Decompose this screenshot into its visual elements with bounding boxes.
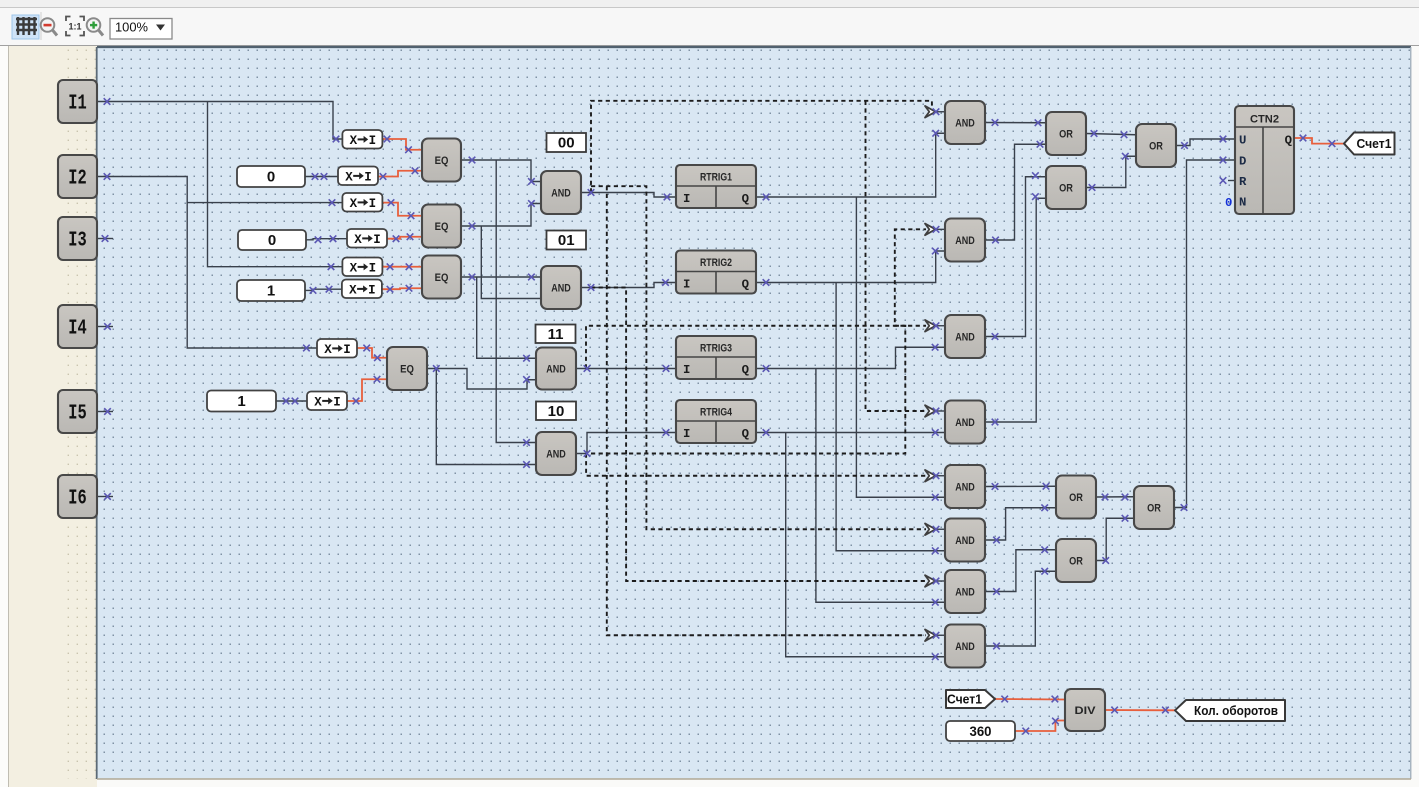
gate OR4 — [1056, 476, 1096, 519]
counter CTN2 — [1235, 106, 1294, 214]
gate AND10 — [945, 519, 985, 562]
wire red XI7 to EQ4 pin1 — [357, 348, 387, 358]
svg-text:X: X — [350, 134, 358, 148]
svg-text:I: I — [683, 363, 690, 377]
input I5 — [58, 390, 97, 433]
converter XI5 X to I — [342, 258, 382, 277]
svg-text:01: 01 — [558, 232, 575, 249]
constant 1 (second) — [207, 391, 276, 412]
svg-text:I2: I2 — [68, 168, 87, 191]
gate AND3 state11 — [536, 348, 576, 390]
wire red DIV out to Kol oborotov tag — [1105, 709, 1175, 711]
svg-text:Q: Q — [742, 192, 750, 206]
wire AND11 to OR5 pin1 — [985, 550, 1056, 592]
svg-text:X: X — [350, 197, 358, 211]
svg-text:AND: AND — [955, 482, 975, 494]
wire dashed AND1 branch to AND10 pin1 — [591, 186, 926, 529]
wire RTRIG1 Q branch to AND9 pin2 — [856, 197, 945, 497]
gate OR5 — [1056, 539, 1096, 582]
wire I2 to XI7 — [97, 177, 317, 349]
svg-text:RTRIG2: RTRIG2 — [700, 257, 732, 269]
wire const0a to XI2 — [305, 176, 338, 178]
comparator EQ2 — [422, 205, 461, 248]
svg-text:I: I — [364, 170, 372, 184]
constant 1 (first) — [237, 280, 305, 301]
toolbar 1:1 button — [66, 17, 84, 36]
output tag Schet1 — [1344, 133, 1395, 155]
gate AND1 state00 — [541, 171, 581, 214]
svg-text:I1: I1 — [68, 93, 87, 116]
wire AND2 to RTRIG2 I — [581, 283, 676, 288]
converter XI2 X to I — [338, 167, 378, 186]
svg-text:I: I — [683, 278, 690, 292]
wire red Schet1 in tag to DIV pin1 — [995, 698, 1065, 701]
wire OR6 to CTN2 D — [1174, 160, 1235, 508]
svg-text:X: X — [345, 170, 353, 184]
svg-text:I: I — [373, 233, 381, 247]
svg-text:10: 10 — [548, 403, 565, 420]
trigger RTRIG3 — [676, 336, 756, 379]
svg-text:OR: OR — [1147, 503, 1161, 515]
svg-text:I6: I6 — [68, 488, 87, 511]
wire dashed AND1 branch to AND8 pin1 — [866, 101, 927, 411]
wire AND3 to RTRIG3 I — [576, 368, 676, 370]
svg-text:0: 0 — [268, 232, 276, 249]
wire RTRIG3 Q to AND7 pin2 — [756, 347, 945, 368]
wire red XI5 to EQ3 pin1 — [382, 266, 422, 268]
input I4 — [58, 305, 97, 348]
wire RTRIG2 Q to AND6 pin2 — [756, 251, 945, 283]
divider DIV — [1065, 689, 1105, 731]
wire red XI1 to EQ1 pin1 — [382, 139, 422, 150]
gate OR6 — [1134, 486, 1174, 529]
svg-text:0: 0 — [267, 169, 275, 186]
svg-text:AND: AND — [955, 417, 975, 429]
comparator EQ1 — [422, 139, 461, 182]
svg-text:AND: AND — [955, 118, 975, 130]
comparator EQ4 — [387, 347, 427, 390]
wire AND8 to OR2 pin2 — [985, 198, 1046, 422]
svg-text:AND: AND — [955, 235, 975, 247]
wire AND12 to OR5 pin2 — [985, 571, 1056, 646]
wire dashed AND4 branch to AND9 pin1 — [586, 454, 926, 476]
wire AND5 to OR1 pin1 — [985, 122, 1046, 124]
toolbar zoom-in button — [87, 18, 103, 35]
wire AND1 to RTRIG1 I — [581, 193, 676, 198]
svg-text:EQ: EQ — [435, 221, 449, 233]
svg-text:AND: AND — [955, 332, 975, 344]
svg-text:I: I — [683, 192, 690, 206]
dashed wire arrowhead y=325.75 — [934, 325, 945, 327]
svg-text:CTN2: CTN2 — [1250, 114, 1279, 126]
gate AND2 state01 — [541, 266, 581, 309]
comment box 00 — [547, 133, 587, 152]
input I1 — [58, 80, 97, 123]
gate OR1 — [1046, 112, 1086, 155]
constant 360 — [946, 721, 1015, 741]
wire red CTN2 Q to Schet1 out tag — [1294, 138, 1344, 144]
svg-text:AND: AND — [955, 535, 975, 547]
gate AND8 — [945, 401, 985, 444]
dashed wire arrowhead y=635.25 — [934, 634, 945, 636]
dashed wire arrowhead y=581 — [934, 580, 945, 582]
svg-text:11: 11 — [548, 326, 564, 343]
wire dashed AND1 to AND5 pin1 — [591, 101, 938, 193]
svg-text:I3: I3 — [68, 230, 87, 253]
svg-text:EQ: EQ — [435, 155, 449, 167]
svg-text:X: X — [349, 283, 357, 297]
wire EQ2 branch to AND2 pin2 — [481, 226, 541, 299]
input I6 — [58, 475, 97, 518]
wire EQ4 branch to AND4 pin2 — [436, 369, 536, 465]
output tag Kol oborotov — [1175, 700, 1285, 721]
svg-text:I: I — [343, 343, 351, 357]
gate AND11 — [945, 570, 985, 613]
wire I1 branch to XI5 — [208, 102, 343, 267]
svg-text:OR: OR — [1059, 129, 1073, 141]
gate OR3 — [1136, 124, 1176, 167]
wire I6 stub — [97, 496, 113, 498]
wire AND6 to OR1 pin2 — [985, 144, 1046, 240]
svg-text:OR: OR — [1059, 183, 1073, 195]
wire EQ4 out to AND3 pin2 — [427, 369, 536, 390]
svg-text:AND: AND — [546, 364, 566, 376]
input I2 — [58, 155, 97, 198]
svg-text:I: I — [369, 261, 377, 275]
comparator EQ3 — [422, 256, 461, 299]
converter XI4 X to I — [347, 229, 387, 248]
wire EQ1 out to AND1 pin1 — [461, 160, 541, 182]
wire AND9 to OR4 pin1 — [985, 485, 1056, 487]
wire AND7 to OR2 pin1 — [985, 177, 1046, 337]
gate AND12 — [945, 625, 985, 668]
dashed wire arrowhead y=411 — [934, 410, 945, 412]
svg-text:Q: Q — [742, 278, 750, 292]
wire OR1 to OR3 pin1 — [1086, 134, 1136, 135]
constant 0 (second) — [238, 230, 306, 250]
input tag Schet1 — [946, 690, 995, 708]
svg-text:1:1: 1:1 — [68, 22, 81, 32]
wire EQ1 branch to AND4 pin1 — [496, 160, 536, 443]
wire red XI2 to EQ1 pin2 — [378, 171, 422, 177]
wire RTRIG4 Q branch to AND12 pin2 — [786, 433, 945, 657]
svg-text:100%: 100% — [115, 20, 148, 35]
gate AND9 — [945, 465, 985, 508]
wire I5 stub — [97, 411, 113, 413]
wire red XI4 to EQ2 pin2 — [387, 237, 422, 239]
wire EQ2 out to AND1 pin2 — [461, 204, 541, 227]
wire RTRIG4 Q to AND8 pin2 — [756, 432, 945, 434]
wire const1b to XI8 — [276, 400, 307, 402]
wire AND10 to OR4 pin2 — [985, 508, 1056, 540]
gate AND6 — [945, 219, 985, 262]
svg-text:OR: OR — [1069, 492, 1083, 504]
svg-text:I: I — [368, 283, 376, 297]
svg-text:360: 360 — [970, 723, 992, 739]
gate AND5 — [945, 101, 985, 144]
svg-text:Счет1: Счет1 — [947, 693, 982, 707]
wire dashed AND3 to AND7 pin1 — [586, 326, 926, 369]
converter XI1 X to I — [342, 130, 382, 149]
svg-text:EQ: EQ — [400, 364, 414, 376]
converter XI8 X to I — [307, 392, 347, 411]
svg-text:I: I — [369, 134, 377, 148]
trigger RTRIG4 — [676, 400, 756, 443]
wire red XI6 to EQ3 pin2 — [381, 287, 422, 290]
wire AND4 to RTRIG4 I — [576, 433, 676, 454]
toolbar grid button (toggled) — [12, 15, 39, 39]
wire const1a to XI6 — [305, 289, 342, 290]
svg-text:X: X — [350, 261, 358, 275]
wire EQ3 branch to AND3 pin1 — [477, 277, 536, 358]
dashed wire arrowhead y=229.35 — [934, 228, 945, 230]
wire RTRIG2 Q branch to AND10 pin2 — [836, 283, 945, 551]
svg-text:OR: OR — [1069, 556, 1083, 568]
svg-text:I5: I5 — [68, 403, 87, 426]
svg-text:00: 00 — [558, 135, 575, 152]
dashed wire arrowhead y=529.25 — [934, 528, 945, 530]
wire OR4 to OR6 pin1 — [1096, 496, 1134, 498]
toolbar zoom dropdown — [110, 19, 172, 40]
svg-text:Кол. оборотов: Кол. оборотов — [1194, 704, 1278, 718]
wire dashed AND4 to AND6 pin1 — [591, 229, 926, 453]
toolbar zoom-out button — [41, 18, 57, 35]
svg-text:I4: I4 — [68, 318, 87, 341]
svg-text:AND: AND — [955, 641, 975, 653]
svg-text:U: U — [1239, 134, 1246, 148]
dashed wire arrowhead y=475.75 — [934, 475, 945, 477]
wire dashed AND1 branch to AND12 pin1 — [607, 186, 926, 635]
comment box 01 — [547, 231, 587, 250]
svg-text:AND: AND — [551, 283, 571, 295]
converter XI6 X to I — [342, 280, 382, 299]
svg-text:1: 1 — [267, 283, 275, 300]
wire EQ3 out to AND2 pin1 — [461, 276, 541, 278]
trigger RTRIG1 — [676, 165, 756, 208]
svg-text:D: D — [1239, 155, 1246, 169]
converter XI7 X to I — [317, 339, 357, 358]
svg-text:AND: AND — [955, 587, 975, 599]
svg-text:AND: AND — [546, 449, 566, 461]
wire CTN2 R stub — [1228, 180, 1235, 182]
wire I2 branch to XI3 — [187, 202, 342, 204]
svg-text:X: X — [354, 233, 362, 247]
svg-text:N: N — [1239, 196, 1246, 210]
gate OR2 — [1046, 166, 1086, 209]
wire dashed AND2 to AND11 pin1 — [591, 288, 926, 582]
svg-text:X: X — [324, 343, 332, 357]
wire red XI8 to EQ4 pin2 — [347, 379, 387, 401]
wire RTRIG1 Q to AND5 pin2 — [756, 133, 945, 197]
svg-text:Q: Q — [742, 363, 750, 377]
input I3 — [58, 217, 97, 260]
comment box 11 — [536, 325, 576, 344]
wire I3 stub — [97, 238, 113, 240]
svg-text:AND: AND — [551, 188, 571, 200]
wire I1 to XI1 — [97, 102, 342, 140]
svg-text:0: 0 — [1225, 196, 1232, 210]
svg-text:I: I — [369, 197, 377, 211]
wire red const360 to DIV pin2 — [1015, 721, 1065, 732]
svg-text:Счет1: Счет1 — [1357, 137, 1392, 151]
svg-text:EQ: EQ — [435, 272, 449, 284]
svg-text:OR: OR — [1149, 141, 1163, 153]
wire const0b to XI4 — [306, 239, 347, 240]
wire red XI3 to EQ2 pin1 — [382, 203, 422, 216]
svg-text:Q: Q — [742, 427, 750, 441]
gate AND7 — [945, 315, 985, 358]
svg-text:RTRIG1: RTRIG1 — [700, 172, 732, 184]
comment box 10 — [536, 402, 576, 421]
svg-text:RTRIG4: RTRIG4 — [700, 407, 733, 419]
svg-text:I: I — [333, 395, 341, 409]
svg-text:RTRIG3: RTRIG3 — [700, 343, 732, 355]
wire OR2 to OR3 pin2 — [1086, 156, 1136, 187]
svg-text:R: R — [1239, 175, 1247, 189]
dashed wire arrowhead y=111.75 — [934, 111, 945, 113]
svg-text:X: X — [314, 395, 322, 409]
wire I4 stub — [97, 326, 113, 328]
svg-text:1: 1 — [237, 393, 245, 410]
wire OR3 to CTN2 U — [1176, 139, 1235, 146]
wire OR5 to OR6 pin2 — [1096, 518, 1134, 560]
constant 0 (first) — [237, 166, 305, 187]
wire RTRIG3 Q branch to AND11 pin2 — [816, 369, 945, 603]
converter XI3 X to I — [342, 193, 382, 212]
svg-text:DIV: DIV — [1075, 705, 1097, 717]
gate AND4 state10 — [536, 432, 576, 475]
trigger RTRIG2 — [676, 251, 756, 294]
connection x markers — [102, 98, 1336, 734]
svg-text:Q: Q — [1285, 134, 1293, 148]
svg-text:I: I — [683, 427, 690, 441]
